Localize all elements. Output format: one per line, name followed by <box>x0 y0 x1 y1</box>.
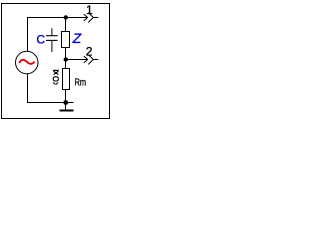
svg-text:Rm: Rm <box>75 77 87 89</box>
wire: Rm bottom stem <box>65 90 67 103</box>
ground stem <box>65 103 67 110</box>
wire: source bottom down <box>27 74 29 103</box>
capacitor C top plate <box>46 35 58 37</box>
capacitor C bottom plate <box>46 39 58 41</box>
svg-text:Z: Z <box>72 30 82 46</box>
port 1 bracket <box>88 13 98 23</box>
wire: left vertical down to source top <box>27 17 29 51</box>
source V1 circle <box>16 51 39 74</box>
impedance Z box <box>62 32 70 48</box>
value 1kOhm rotated: Ohm ring <box>53 77 58 81</box>
wire: bottom horizontal <box>27 102 74 104</box>
svg-text:C: C <box>36 33 45 47</box>
wire: top horizontal from source to port 1 <box>27 17 87 19</box>
value 1kOhm rotated: k stem bar <box>53 70 59 71</box>
junction dot node 2 <box>64 57 68 61</box>
wire: Z bottom stem <box>65 48 67 60</box>
junction dot node 1 <box>64 15 68 19</box>
value 1kOhm rotated: k legs <box>54 71 59 74</box>
wire: Z top stem <box>65 18 67 32</box>
port 2 arrow <box>66 56 88 63</box>
value 1kOhm rotated: Ohm feet <box>53 83 58 85</box>
capacitor C stems <box>51 28 53 52</box>
junction dot node gnd <box>63 100 68 105</box>
schematic frame <box>2 4 110 119</box>
svg-text:2: 2 <box>86 44 93 58</box>
resistor Rm box <box>63 69 70 90</box>
port 2 bracket <box>88 55 98 65</box>
wire: Rm top stem <box>65 60 67 69</box>
port 1 arrow <box>66 14 88 21</box>
svg-text:1: 1 <box>86 3 93 17</box>
ground bar <box>60 110 74 112</box>
source V1 sine wave <box>19 60 34 64</box>
